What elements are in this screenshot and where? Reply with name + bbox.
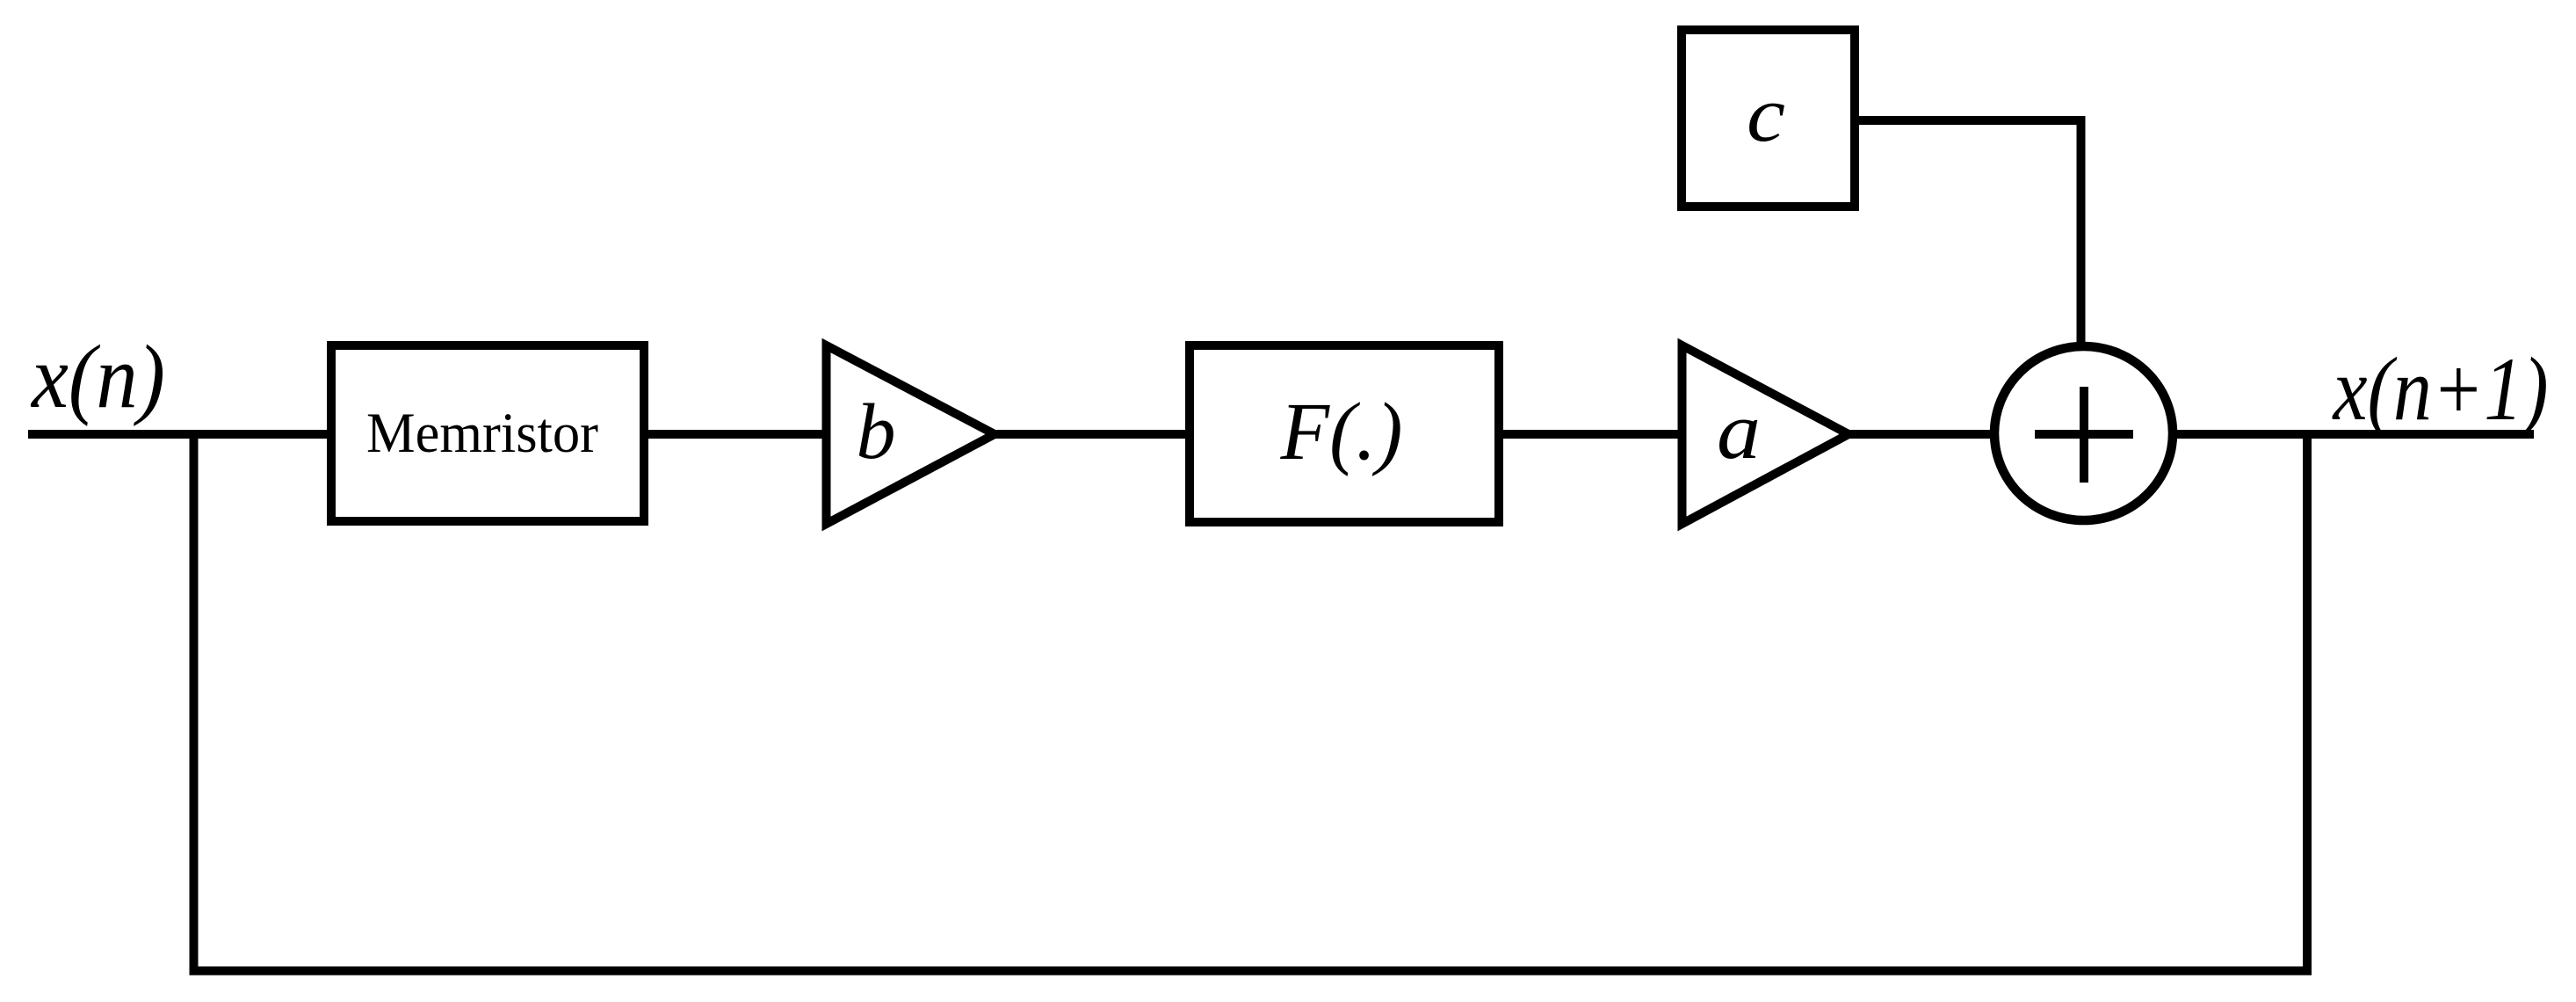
svg-text:a: a [1717, 386, 1761, 476]
svg-text:F(.): F(.) [1280, 387, 1403, 477]
svg-text:Memristor: Memristor [366, 402, 598, 465]
wire gain b to F(.) [995, 430, 1190, 439]
memristor block [331, 345, 644, 521]
block F(.) nonlinear function [1190, 345, 1499, 522]
wire summer to output x(n+1) [2173, 430, 2534, 439]
wire gain a to summer [1849, 430, 1996, 439]
wire F(.) to gain a [1499, 430, 1682, 439]
block c constant [1682, 30, 1855, 207]
gain b (triangle amplifier) [827, 345, 995, 524]
gain a (triangle amplifier) [1682, 345, 1849, 524]
svg-text:x(n+1): x(n+1) [2332, 339, 2549, 439]
svg-text:b: b [857, 388, 896, 476]
wire Memristor to gain b [644, 430, 827, 439]
wire input x(n) to Memristor [28, 430, 331, 439]
svg-text:x(n): x(n) [30, 327, 165, 427]
wire c to summer [1855, 120, 2081, 343]
summer (adder) [1994, 346, 2173, 520]
svg-text:c: c [1747, 71, 1785, 158]
wire feedback loop from input tap down, across bottom, up to output [194, 434, 2308, 971]
